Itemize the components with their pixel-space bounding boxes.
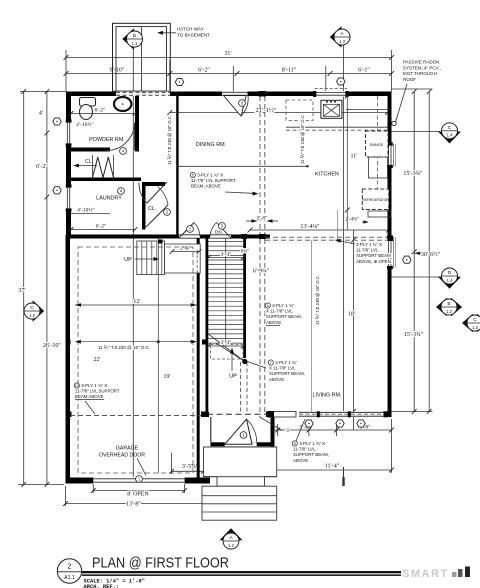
door 1 entry — [225, 442, 257, 446]
door tag 4 powder — [120, 148, 127, 155]
door tag 3 — [239, 100, 246, 107]
window laundry (left wall) — [66, 186, 71, 210]
dimension 3'-4 stair lower — [208, 345, 243, 347]
wall exterior garage bottom — [66, 478, 211, 484]
note beam 7 — [268, 360, 273, 365]
svg-text:37′: 37′ — [18, 288, 26, 294]
dimension 6'-2 powder — [71, 113, 135, 115]
svg-text:26′-10″: 26′-10″ — [43, 343, 61, 349]
beam 13 dashed garage — [70, 415, 205, 417]
svg-text:8′ OPEN: 8′ OPEN — [127, 492, 149, 498]
svg-text:11-7/8″ LVL: 11-7/8″ LVL — [356, 248, 379, 253]
stair main treads — [208, 241, 243, 243]
svg-text:1.2: 1.2 — [446, 309, 452, 314]
wall exterior right — [388, 92, 392, 418]
dimension 13'-8 line — [65, 486, 67, 506]
svg-text:BEAM ABOVE: BEAM ABOVE — [75, 394, 104, 399]
elevation marker C/1.2 left — [33, 300, 45, 322]
svg-text:15′-3¾″: 15′-3¾″ — [404, 331, 424, 338]
svg-text:1.4: 1.4 — [447, 278, 453, 283]
wall stair left — [206, 238, 209, 413]
dimension 12' garage — [75, 304, 197, 306]
svg-text:21′-1½″: 21′-1½″ — [256, 107, 277, 114]
svg-text:GARAGE: GARAGE — [116, 446, 139, 452]
beam 6 dashed pair — [259, 239, 261, 413]
post beam13 right — [201, 412, 208, 418]
svg-text:11′: 11′ — [350, 154, 358, 160]
wall entry left (thin) — [210, 417, 212, 442]
svg-text:8: 8 — [294, 442, 296, 446]
svg-text:3′-4″: 3′-4″ — [221, 252, 232, 258]
elevation marker A/1.2 bottom — [220, 528, 243, 549]
leader 3' entry — [259, 417, 282, 431]
door 2 hall (45deg) — [179, 235, 200, 239]
svg-text:DINING RM.: DINING RM. — [196, 142, 226, 148]
note beam 6 — [265, 303, 270, 308]
svg-text:C: C — [448, 125, 452, 131]
extension line kitchen mid — [337, 210, 339, 240]
svg-text:C: C — [473, 317, 477, 323]
post entry top left — [204, 412, 209, 417]
post garage mid right — [202, 340, 208, 345]
svg-text:3′-4″: 3′-4″ — [221, 340, 232, 346]
svg-text:11 ⅖″ TJI 230 @ 16″ O.C.: 11 ⅖″ TJI 230 @ 16″ O.C. — [98, 345, 150, 350]
svg-text:3′: 3′ — [286, 428, 290, 434]
post hall wall — [242, 234, 248, 239]
window tag hexagon right wall — [403, 256, 411, 263]
stair mud landing — [165, 244, 201, 273]
sink powder — [114, 97, 131, 111]
section marker C/1.4 — [392, 131, 441, 133]
counter below range — [369, 157, 388, 178]
svg-text:6′-2″: 6′-2″ — [36, 164, 48, 170]
window tag hexagon living a — [305, 420, 313, 427]
beam entry top dashed — [207, 413, 270, 415]
svg-text:11-7/8″ LVL: 11-7/8″ LVL — [293, 447, 316, 452]
elevation marker C/1.2 right — [462, 314, 480, 332]
toilet — [80, 98, 96, 107]
svg-text:LAUNDRY: LAUNDRY — [96, 196, 122, 202]
post beam13 left — [66, 412, 72, 418]
dimension column right — [413, 92, 415, 412]
svg-text:SMART: SMART — [402, 568, 449, 580]
dimension 2'-8 beam arrows — [246, 220, 256, 222]
svg-text:C: C — [30, 305, 34, 311]
door tag 5 basement — [219, 223, 226, 230]
door tag 4 laundry — [118, 188, 125, 195]
svg-text:1.4: 1.4 — [447, 133, 453, 138]
svg-text:11 ⅖″ TJI 230 @ 16″ O.C.: 11 ⅖″ TJI 230 @ 16″ O.C. — [167, 115, 172, 165]
svg-text:18′: 18′ — [348, 312, 356, 318]
dimension 13'-4 1/8 line — [250, 229, 389, 231]
dimension 11'-4 line — [273, 449, 275, 473]
svg-text:11′-4″: 11′-4″ — [325, 464, 340, 470]
svg-text:X 11-7/8″ LVL: X 11-7/8″ LVL — [269, 366, 296, 371]
svg-text:31′: 31′ — [224, 51, 232, 57]
door tag 2 closet hall — [164, 209, 171, 216]
stair mud steps — [137, 241, 165, 275]
beam 5 dashed pair — [259, 96, 261, 235]
note beam 8 — [292, 441, 297, 446]
svg-text:1.3: 1.3 — [339, 39, 345, 44]
svg-text:11 ⅖″ TJI 230 @ 16″ O.C.: 11 ⅖″ TJI 230 @ 16″ O.C. — [315, 275, 320, 325]
section line A (vertical x=343.5) — [343, 45, 345, 92]
garage dashed perimeter — [78, 247, 193, 473]
svg-text:15′-3¾″: 15′-3¾″ — [403, 170, 423, 177]
svg-text:2-PLY 1 ¾″: 2-PLY 1 ¾″ — [275, 360, 297, 365]
svg-text:2: 2 — [67, 562, 71, 571]
dimension 11' kitchen line — [346, 96, 348, 230]
svg-text:2-PLY 1 ¾″: 2-PLY 1 ¾″ — [272, 303, 294, 308]
svg-text:UP: UP — [229, 374, 237, 380]
post beam5 top — [259, 91, 267, 97]
dimension 8' OPEN line — [92, 484, 94, 493]
svg-text:13′-4⅛″: 13′-4⅛″ — [300, 224, 320, 230]
counter below fridge — [368, 211, 391, 217]
svg-text:SUPPORT BEAM,: SUPPORT BEAM, — [266, 314, 302, 319]
door tag 2 hall — [187, 226, 194, 233]
svg-text:ABOVE: ABOVE — [293, 458, 308, 463]
svg-text:30′-6½″: 30′-6½″ — [421, 251, 441, 258]
svg-text:CL.: CL. — [148, 206, 156, 212]
post beam5 bottom — [259, 234, 266, 239]
wall powder room bottom — [71, 148, 110, 152]
door 4 powder room — [107, 123, 135, 151]
wall stair right — [243, 238, 246, 358]
window tag hexagon living b — [336, 420, 344, 427]
svg-text:D: D — [448, 270, 452, 276]
section line B (vertical x=133.3) — [132, 47, 134, 92]
svg-text:3-PLY 1 ¾″ X: 3-PLY 1 ¾″ X — [81, 383, 107, 388]
svg-text:EXIT THROUGH: EXIT THROUGH — [403, 71, 437, 76]
svg-text:5: 5 — [192, 174, 194, 178]
hatchway bulkhead box — [113, 23, 171, 91]
dimension row living windows — [271, 429, 392, 431]
svg-text:3-PLY 1 ¾″ X: 3-PLY 1 ¾″ X — [299, 441, 325, 446]
svg-text:A1.1: A1.1 — [64, 575, 75, 581]
dimension row top — [66, 57, 392, 59]
svg-text:9′-10″: 9′-10″ — [110, 67, 125, 73]
wall hall closet top — [142, 182, 165, 186]
window tag hexagon top right — [337, 78, 345, 85]
svg-text:ABOVE: ABOVE — [269, 377, 284, 382]
dimension 3'-5 5/8 and 6'-10 line — [171, 453, 173, 474]
svg-text:3′-5⅝″: 3′-5⅝″ — [182, 464, 199, 470]
door 4 laundry — [139, 182, 167, 203]
door 5 basement (45deg) — [210, 235, 231, 239]
dimension 3'-4 stair upper — [208, 257, 243, 259]
svg-text:2′-8″: 2′-8″ — [257, 215, 268, 221]
sink kitchen — [321, 100, 342, 118]
wall garage right — [197, 238, 200, 478]
stair newel post — [242, 359, 247, 364]
svg-text:SUPPORT BEAM: SUPPORT BEAM — [356, 253, 391, 258]
leader garage door — [137, 458, 146, 476]
title underline — [82, 571, 401, 573]
leader newel to note7 — [247, 362, 266, 369]
svg-text:PLAN @ FIRST FLOOR: PLAN @ FIRST FLOOR — [92, 555, 229, 572]
door tag 1 entry — [240, 432, 247, 439]
svg-text:6′-2″: 6′-2″ — [198, 67, 210, 73]
window right wall lower — [387, 237, 392, 268]
porch step 1 — [204, 477, 277, 487]
svg-text:1.2: 1.2 — [29, 313, 35, 318]
post mud steps — [159, 240, 163, 244]
svg-text:OVERHEAD DOOR: OVERHEAD DOOR — [99, 453, 145, 459]
svg-text:1.2: 1.2 — [228, 543, 234, 548]
window tag hexagon left lower — [53, 187, 61, 194]
svg-text:6′-2″: 6′-2″ — [95, 108, 106, 114]
wall laundry top — [71, 178, 141, 182]
stair winders — [208, 334, 244, 361]
svg-text:4′: 4′ — [39, 111, 44, 117]
svg-text:POWDER RM.: POWDER RM. — [89, 137, 125, 143]
door closet hall — [146, 205, 168, 227]
closet arrow — [75, 165, 97, 167]
svg-text:6′-1″: 6′-1″ — [358, 67, 370, 73]
svg-text:6¼″: 6¼″ — [241, 250, 249, 255]
window band living room south wall — [276, 412, 299, 418]
beam 7 dashed pair — [240, 362, 242, 413]
svg-text:ABOVE, ⊕ OPEN.: ABOVE, ⊕ OPEN. — [356, 259, 392, 264]
refrigerator — [362, 189, 389, 210]
svg-text:11 ⅖″ TJI 230 @ 16″ O.C.: 11 ⅖″ TJI 230 @ 16″ O.C. — [300, 114, 305, 164]
stair up arrow — [231, 350, 233, 371]
title drawing number circle 2/A1.1 — [57, 559, 81, 583]
svg-text:DN.: DN. — [215, 230, 223, 235]
soffit line kitchen — [286, 126, 388, 128]
leader beam 8 — [296, 419, 305, 441]
wall entry bottom — [211, 442, 275, 446]
svg-text:8′-11″: 8′-11″ — [282, 67, 297, 73]
svg-text:LIVING RM.: LIVING RM. — [312, 393, 341, 399]
wall exterior left garage — [66, 235, 71, 484]
dimension line 19' garage — [157, 239, 159, 474]
svg-text:13: 13 — [75, 384, 79, 388]
svg-text:13′-8″: 13′-8″ — [126, 502, 141, 508]
svg-text:CL.: CL. — [85, 159, 93, 165]
svg-text:6′-2″: 6′-2″ — [96, 224, 107, 230]
svg-text:SYSTEM, 4″ PCV ,: SYSTEM, 4″ PCV , — [403, 65, 441, 70]
counter kitchen — [346, 109, 388, 111]
door tag 1 garage — [136, 476, 143, 483]
svg-text:UP: UP — [124, 257, 132, 263]
svg-text:TO BASEMENT: TO BASEMENT — [177, 32, 210, 37]
porch outline — [204, 447, 277, 477]
svg-text:HATCH WAY: HATCH WAY — [177, 27, 204, 32]
note beam 13 — [74, 383, 79, 388]
svg-text:ROOF: ROOF — [403, 77, 416, 82]
wall hall closet west — [142, 184, 146, 230]
svg-text:19′: 19′ — [163, 374, 171, 380]
window tag hexagon living c — [357, 420, 365, 427]
dimension 18' line — [353, 230, 355, 430]
svg-text:PASSIVE RADON: PASSIVE RADON — [403, 60, 439, 65]
post garage mid left — [66, 340, 71, 345]
garage overhead door opening — [93, 478, 184, 484]
window right wall upper — [387, 144, 392, 167]
leader beam5 — [225, 192, 256, 194]
svg-text:B: B — [133, 33, 136, 39]
wall entry right — [271, 417, 275, 447]
mud up arrow — [135, 258, 157, 260]
svg-text:1.1: 1.1 — [132, 41, 138, 46]
window kitchen (top wall) — [315, 91, 347, 97]
window tag hexagon top left — [175, 78, 183, 85]
svg-text:3-PLY 1 ¾″ X: 3-PLY 1 ¾″ X — [197, 173, 223, 178]
door bifold closet CL — [93, 157, 98, 178]
svg-text:11-7/8″ LVL SUPPORT: 11-7/8″ LVL SUPPORT — [75, 389, 120, 394]
cabinet dashed left of sink — [286, 100, 313, 120]
svg-text:ABOVE: ABOVE — [266, 320, 281, 325]
svg-text:1.2: 1.2 — [472, 325, 478, 330]
range — [366, 131, 389, 157]
wall exterior top — [66, 92, 388, 97]
svg-text:6′-9¼″: 6′-9¼″ — [253, 269, 270, 275]
dimension 6'-2 laundry — [71, 229, 135, 231]
dimension 2'-8 landing — [172, 251, 199, 253]
radon pipe — [392, 121, 396, 125]
leader hatchway arrow — [159, 32, 176, 34]
svg-text:6: 6 — [267, 304, 269, 308]
wall living room bottom — [266, 412, 392, 418]
opening line dining-hall — [178, 165, 308, 167]
door 3 dining exterior — [222, 92, 248, 97]
svg-text:7: 7 — [270, 361, 272, 365]
elevation marker B/1.2 — [436, 298, 462, 316]
svg-text:4′-10½″: 4′-10½″ — [76, 121, 94, 128]
svg-text:REFRIGERATOR: REFRIGERATOR — [362, 198, 389, 202]
wall garage top / hall bottom — [66, 235, 271, 239]
window powder room (left wall) — [66, 121, 71, 145]
svg-text:B: B — [447, 301, 450, 307]
svg-text:SUPPORT BEAM,: SUPPORT BEAM, — [269, 371, 305, 376]
dashed beam mud — [196, 250, 198, 274]
svg-text:BEAM, ABOVE: BEAM, ABOVE — [191, 184, 221, 189]
wall powder block east — [176, 96, 178, 238]
svg-text:3-PLY 1 ¾″ X: 3-PLY 1 ¾″ X — [356, 242, 382, 247]
beam open dashed (hall to living) — [265, 236, 389, 238]
porch steps lower — [202, 486, 277, 520]
note beam 5 dining — [190, 172, 195, 177]
wall exterior left upper — [66, 92, 71, 239]
garage joist line — [75, 341, 197, 343]
svg-text:12′: 12′ — [133, 299, 141, 305]
section marker D/1.4 — [392, 276, 442, 278]
window tag hexagon left upper — [53, 118, 61, 125]
dimension 21'-1 1/2 line — [170, 112, 388, 114]
dimension 30'-6 1/2 leader — [415, 252, 426, 254]
svg-text:ARCH. REF.:: ARCH. REF.: — [84, 584, 120, 588]
section marker A/1.3 — [330, 26, 350, 48]
svg-text:SUPPORT BEAM,: SUPPORT BEAM, — [293, 452, 329, 457]
wall powder room right — [135, 96, 139, 152]
post beam open right — [388, 236, 394, 242]
dimension column left (37', 4', 6'-2", 26'-10") — [23, 92, 25, 485]
svg-text:KITCHEN: KITCHEN — [315, 172, 339, 178]
section marker B/1.1 — [122, 28, 142, 50]
leader beam open — [337, 241, 355, 245]
svg-text:22′: 22′ — [93, 357, 101, 363]
hatchway wall gap (dashed) — [116, 92, 170, 97]
svg-text:4′-10½″: 4′-10½″ — [77, 207, 95, 214]
svg-text:11-7/8″ LVL SUPPORT: 11-7/8″ LVL SUPPORT — [191, 178, 236, 183]
svg-text:X 11-7/8″ LVL: X 11-7/8″ LVL — [266, 309, 293, 314]
extension line living left — [311, 240, 313, 412]
svg-text:RANGE: RANGE — [370, 143, 384, 147]
leader beam 13 — [85, 401, 95, 414]
